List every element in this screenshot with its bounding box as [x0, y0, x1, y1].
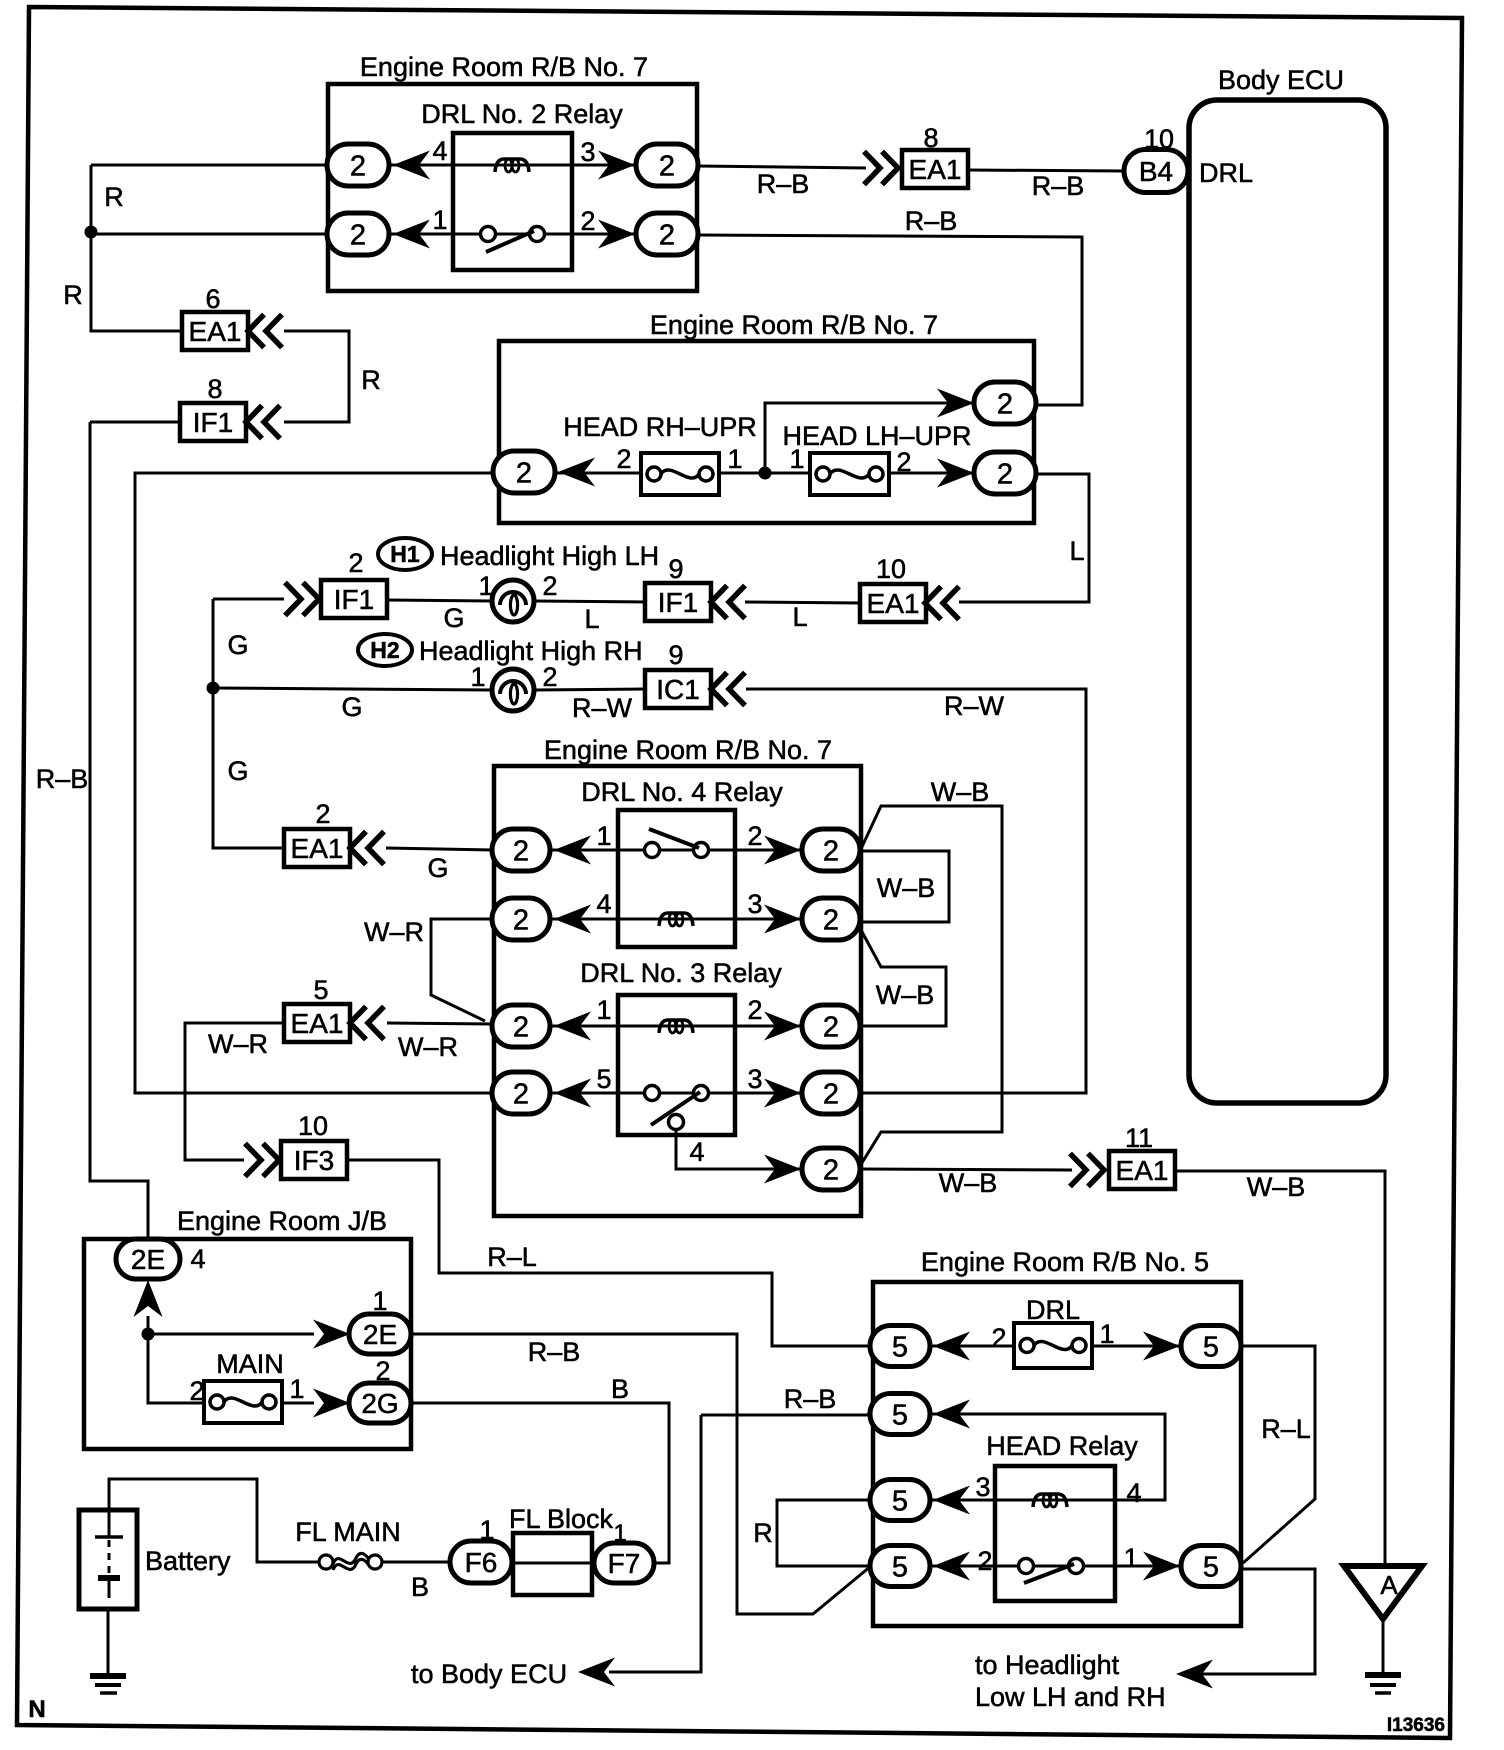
connector oval 5 (DRL in)	[870, 1326, 930, 1367]
wire W-B loop K4 pin3 to K3 pin2	[861, 930, 946, 1026]
svg-text:W–B: W–B	[1247, 1172, 1306, 1202]
svg-text:8: 8	[207, 374, 222, 404]
svg-text:Engine Room J/B: Engine Room J/B	[177, 1206, 387, 1236]
svg-text:to Body ECU: to Body ECU	[411, 1659, 567, 1689]
svg-text:2: 2	[997, 458, 1013, 490]
wire K3 contact row	[550, 1092, 802, 1095]
fuse F MAIN	[204, 1381, 282, 1423]
svg-text:1: 1	[596, 995, 611, 1025]
connector EA1 (10)	[860, 584, 926, 622]
svg-text:R–B: R–B	[784, 1384, 837, 1414]
connector oval 2 (K3 pin1)	[492, 1005, 550, 1047]
wire K4 coil row	[550, 918, 802, 921]
wire H2 pin2 to IC1	[534, 689, 646, 690]
wire W-B loop K4 pin2 to pin3	[862, 851, 949, 922]
battery BAT plates	[95, 1510, 123, 1598]
svg-text:W–R: W–R	[364, 917, 424, 947]
svg-text:R: R	[361, 365, 381, 395]
svg-text:EA1: EA1	[291, 1008, 344, 1039]
wire R to K1 pin1	[91, 233, 327, 236]
wire relay K1 coil row	[389, 164, 636, 167]
svg-text:Body ECU: Body ECU	[1218, 65, 1344, 95]
svg-text:R–L: R–L	[1261, 1414, 1311, 1444]
wire W-B to ground A	[1175, 1171, 1385, 1566]
relay K3 contact	[645, 1086, 709, 1126]
svg-text:Engine Room R/B No. 5: Engine Room R/B No. 5	[921, 1247, 1209, 1277]
svg-text:IF1: IF1	[334, 584, 374, 615]
svg-text:Engine Room R/B No. 7: Engine Room R/B No. 7	[544, 735, 832, 765]
connector oval B4	[1124, 150, 1188, 193]
svg-text:IF3: IF3	[294, 1145, 334, 1176]
svg-text:Engine Room R/B No. 7: Engine Room R/B No. 7	[360, 52, 648, 82]
arrow out K3 pin3	[764, 1079, 801, 1108]
junction node jb	[142, 1328, 155, 1341]
svg-text:EA1: EA1	[291, 833, 344, 864]
wire to headlight low	[1200, 1569, 1315, 1674]
wire H1 pin2 to IF1-9	[534, 601, 646, 602]
arrow out pin2	[598, 220, 635, 249]
svg-text:11: 11	[1125, 1123, 1153, 1153]
relay K4 DRL No.4 relay case	[618, 810, 735, 947]
svg-text:4: 4	[689, 1137, 704, 1167]
arrow into K5 pin3	[933, 1486, 970, 1515]
arrow into pin1	[393, 220, 430, 249]
relay K3 pin4 contact circle	[669, 1115, 684, 1130]
relay K5 contact	[1019, 1559, 1084, 1584]
wire relay K1 contact row	[389, 233, 636, 236]
junction node G	[207, 682, 220, 695]
svg-text:5: 5	[892, 1485, 908, 1517]
connector oval 2 (K4 pin2)	[802, 829, 860, 871]
arrow into K3 pin5	[554, 1079, 591, 1108]
svg-text:DRL No. 4 Relay: DRL No. 4 Relay	[581, 777, 783, 807]
arrow out K4 pin2	[764, 836, 801, 865]
arrow to Body ECU	[578, 1658, 615, 1687]
svg-text:G: G	[227, 756, 248, 786]
wire R-B from K1 pin3	[698, 166, 866, 168]
svg-text:4: 4	[596, 889, 611, 919]
svg-text:2: 2	[659, 150, 675, 182]
wire to H1 pin1	[387, 600, 491, 601]
connector EA1 (8)	[902, 150, 968, 188]
wire K5 coil row	[930, 1499, 1115, 1502]
chevrons IF1-2	[285, 583, 319, 616]
fuse F DRL	[1014, 1323, 1092, 1368]
svg-text:G: G	[227, 630, 248, 660]
wire FL MAIN to F6	[382, 1561, 451, 1564]
svg-text:L: L	[1069, 536, 1084, 566]
chevrons EA1-10	[925, 587, 959, 620]
fusible link FL MAIN	[319, 1553, 382, 1570]
wire R loop pin3 to pin2	[777, 1500, 870, 1566]
wire R-B 2E to R/B5	[411, 1334, 871, 1614]
wire G to H2 pin1	[213, 688, 491, 690]
wire to 2E pin1	[148, 1333, 314, 1336]
wire R-B from K1 pin2	[698, 235, 1082, 405]
svg-text:5: 5	[596, 1064, 611, 1094]
arrow out upper	[937, 389, 974, 418]
wire to upper output oval	[765, 403, 975, 473]
svg-text:2: 2	[350, 150, 366, 182]
svg-text:2: 2	[997, 388, 1013, 420]
chevrons EA1-2	[350, 832, 384, 865]
wire W-B top rail	[860, 806, 1002, 1166]
arrow into row2	[933, 1400, 970, 1429]
arrow to headlight low	[1176, 1660, 1213, 1689]
svg-text:9: 9	[668, 554, 683, 584]
svg-text:4: 4	[1126, 1478, 1141, 1508]
svg-text:Headlight High RH: Headlight High RH	[419, 636, 643, 666]
svg-text:HEAD Relay: HEAD Relay	[986, 1431, 1138, 1461]
svg-text:EA1: EA1	[867, 588, 920, 619]
wire R from EA1-6	[284, 331, 349, 422]
connector oval 2 (K4 pin1)	[492, 829, 550, 871]
box Engine Room R/B No. 7 (DRL No.2 relay)	[328, 84, 697, 291]
chevrons EA1-6	[248, 315, 282, 348]
wire MAIN to 2G	[282, 1402, 314, 1405]
connector oval 2 (HEAD row left)	[493, 451, 555, 493]
arrow into K3 pin1	[554, 1012, 591, 1041]
svg-text:R: R	[63, 280, 83, 310]
chevrons IF1-8	[246, 406, 280, 439]
wire W-R K4 pin4 to EA1-5	[431, 919, 493, 1021]
svg-text:Headlight High LH: Headlight High LH	[440, 541, 659, 571]
svg-text:2E: 2E	[363, 1319, 397, 1350]
svg-text:1: 1	[289, 1374, 304, 1404]
svg-text:W–B: W–B	[931, 777, 990, 807]
box Engine Room R/B No. 7 (HEAD fuses)	[499, 341, 1034, 523]
svg-text:N: N	[28, 1696, 45, 1723]
relay K3 coil	[659, 1020, 693, 1033]
svg-text:2: 2	[747, 821, 762, 851]
svg-text:2: 2	[580, 206, 595, 236]
svg-text:5: 5	[892, 1331, 908, 1363]
connector oval 5 (K5 pin3)	[870, 1480, 930, 1521]
svg-text:F6: F6	[465, 1547, 498, 1578]
connector EA1 (11)	[1109, 1151, 1175, 1189]
connector oval 2 (K3 pin5)	[492, 1072, 550, 1114]
svg-text:G: G	[427, 853, 448, 883]
arrow into HEAD fuses	[558, 458, 595, 487]
chevrons IF1-9	[711, 586, 745, 619]
connector EA1 (2)	[284, 829, 350, 867]
relay K1 contact	[481, 227, 545, 253]
svg-text:G: G	[341, 692, 362, 722]
connector oval 2 (K4 pin3)	[802, 898, 860, 940]
lamp H2 bulb	[492, 669, 534, 711]
arrow into K4 pin1	[554, 836, 591, 865]
svg-text:HEAD RH–UPR: HEAD RH–UPR	[563, 412, 757, 442]
svg-text:1: 1	[1123, 1543, 1138, 1573]
connector oval 5 (K5 pin2)	[870, 1546, 930, 1587]
svg-text:FL Block: FL Block	[509, 1504, 614, 1534]
svg-text:Battery: Battery	[145, 1546, 231, 1576]
svg-text:2: 2	[896, 447, 911, 477]
svg-text:3: 3	[747, 1064, 762, 1094]
arrow out DRL fuse	[1143, 1332, 1180, 1361]
svg-text:1: 1	[432, 205, 447, 235]
svg-text:2: 2	[513, 835, 529, 867]
lamp H1 designator	[378, 538, 432, 570]
svg-text:B: B	[411, 1572, 429, 1602]
svg-text:DRL: DRL	[1026, 1295, 1080, 1325]
arrow out K5 pin1	[1143, 1552, 1180, 1581]
svg-text:2: 2	[348, 548, 363, 578]
svg-text:5: 5	[892, 1551, 908, 1583]
svg-text:2: 2	[659, 219, 675, 251]
ground marker A triangle	[1344, 1566, 1422, 1619]
connector oval 2E (pin1)	[349, 1314, 411, 1354]
wire G to DRL4 pin1	[386, 848, 493, 850]
connector IF1 (9)	[645, 583, 711, 621]
svg-text:EA1: EA1	[909, 154, 962, 185]
wire R-B long left vertical	[90, 422, 148, 1241]
battery BAT case	[79, 1510, 137, 1609]
wire W-R to IF3	[185, 1023, 284, 1160]
svg-text:W–R: W–R	[208, 1029, 268, 1059]
svg-text:3: 3	[975, 1472, 990, 1502]
box Engine Room R/B No. 7 (DRL relays)	[494, 766, 861, 1216]
svg-text:DRL No. 3 Relay: DRL No. 3 Relay	[580, 958, 782, 988]
svg-text:2: 2	[616, 444, 631, 474]
wire R-W from IC1	[746, 689, 1086, 1093]
arrow out K3 pin4	[764, 1155, 801, 1184]
svg-text:5: 5	[892, 1399, 908, 1431]
svg-text:2: 2	[991, 1323, 1006, 1353]
connector oval 2 (lower out)	[974, 452, 1036, 494]
relay K1 coil	[495, 159, 529, 172]
arrow into pin4	[393, 151, 430, 180]
arrow into K5 pin2	[933, 1552, 970, 1581]
svg-text:2: 2	[350, 219, 366, 251]
svg-text:MAIN: MAIN	[216, 1349, 284, 1379]
svg-text:1: 1	[789, 444, 804, 474]
svg-text:10: 10	[876, 554, 906, 584]
arrow out 2G-2	[313, 1389, 350, 1418]
svg-text:R: R	[753, 1518, 773, 1548]
svg-text:IF1: IF1	[658, 587, 698, 618]
chevrons IC1-9	[711, 673, 745, 706]
arrow out pin3	[598, 151, 635, 180]
svg-text:B4: B4	[1139, 156, 1173, 187]
connector oval 2E (pin4)	[116, 1239, 180, 1279]
svg-text:L: L	[792, 602, 807, 632]
svg-text:R: R	[104, 182, 124, 212]
arrow into K4 pin4	[554, 905, 591, 934]
svg-text:F7: F7	[608, 1548, 641, 1579]
svg-text:2: 2	[542, 571, 557, 601]
svg-text:W–B: W–B	[939, 1168, 998, 1198]
wire R-L row2 rail	[867, 1414, 1165, 1500]
svg-text:IF1: IF1	[193, 407, 233, 438]
arrow up into 2E	[134, 1280, 163, 1317]
svg-text:2: 2	[747, 995, 762, 1025]
ECU U1 Body ECU outline	[1189, 100, 1386, 1103]
lamp H2 designator	[358, 634, 412, 666]
wire 2E to junction	[148, 1316, 216, 1403]
svg-text:3: 3	[580, 137, 595, 167]
connector IC1 (9)	[645, 670, 711, 708]
arrow out 2E-1	[313, 1320, 350, 1349]
arrow into DRL fuse	[933, 1332, 970, 1361]
wire DRL fuse row	[930, 1345, 1181, 1348]
svg-text:DRL: DRL	[1199, 158, 1253, 188]
svg-text:2: 2	[513, 1078, 529, 1110]
svg-text:2: 2	[516, 457, 532, 489]
svg-text:R–L: R–L	[487, 1242, 537, 1272]
wire G rail	[213, 599, 285, 848]
relay K3 DRL No.3 relay case	[618, 995, 735, 1135]
svg-text:4: 4	[190, 1244, 205, 1274]
wire R vertical	[91, 165, 182, 331]
chevrons into EA1-11	[1070, 1154, 1104, 1187]
svg-text:B: B	[611, 1374, 629, 1404]
svg-text:A: A	[1380, 1570, 1398, 1600]
svg-text:4: 4	[432, 136, 447, 166]
svg-text:H1: H1	[390, 541, 420, 567]
svg-text:W–R: W–R	[398, 1032, 458, 1062]
wire W-B K3 pin4 to EA1-11	[860, 1169, 1072, 1170]
svg-text:1: 1	[470, 662, 485, 692]
fuse F HEAD RH-UPR	[641, 453, 719, 495]
lamp H1 bulb	[492, 580, 534, 622]
svg-text:2: 2	[542, 662, 557, 692]
connector oval 2 (K3 pin3)	[802, 1072, 860, 1114]
connector oval 2 (K3 pin4)	[802, 1148, 860, 1190]
svg-text:2G: 2G	[361, 1388, 398, 1419]
svg-text:2: 2	[823, 1011, 839, 1043]
svg-text:L: L	[584, 604, 599, 634]
svg-text:H2: H2	[370, 637, 399, 663]
ground A symbol	[1365, 1619, 1401, 1693]
relay K4 contact	[645, 829, 709, 858]
svg-text:2: 2	[823, 1078, 839, 1110]
connector IF3 (10)	[281, 1141, 347, 1179]
connector oval 5 (DRL out)	[1181, 1326, 1241, 1367]
svg-text:R–B: R–B	[528, 1337, 581, 1367]
wire K3 coil row	[550, 1025, 802, 1028]
connector oval 2 (K1 pin1 side)	[327, 213, 389, 255]
svg-text:W–B: W–B	[876, 980, 935, 1010]
relay K1 DRL No.2 relay case	[453, 133, 572, 270]
connector oval F7	[594, 1543, 654, 1583]
connector oval 2 (K1 pin2 side)	[636, 213, 698, 255]
connector oval 5 (K5 pin1)	[1181, 1546, 1241, 1587]
svg-text:3: 3	[747, 889, 762, 919]
connector oval 2G (pin2)	[349, 1383, 411, 1423]
arrow out K3 pin2	[764, 1012, 801, 1041]
battery ground symbol	[90, 1609, 126, 1693]
connector oval 2 (K4 pin4)	[492, 898, 550, 940]
box Engine Room J/B	[84, 1239, 411, 1449]
svg-text:2: 2	[823, 904, 839, 936]
svg-text:2: 2	[823, 835, 839, 867]
svg-text:2: 2	[823, 1154, 839, 1186]
wire B 2G to FL block	[411, 1403, 669, 1563]
wire R-B left rail	[90, 421, 180, 424]
svg-text:EA1: EA1	[1116, 1155, 1169, 1186]
svg-text:R–B: R–B	[1032, 171, 1085, 201]
relay K5 coil	[1033, 1494, 1067, 1507]
connector oval 2 (upper out)	[974, 382, 1036, 424]
connector oval 5 (R-B in)	[870, 1394, 930, 1435]
svg-text:to Headlight: to Headlight	[975, 1650, 1120, 1680]
chevrons IF3-10	[245, 1144, 279, 1177]
wire to Body ECU	[609, 1415, 701, 1672]
relay K4 coil	[659, 913, 693, 926]
svg-text:R–B: R–B	[905, 206, 958, 236]
svg-text:5: 5	[1203, 1551, 1219, 1583]
arrow out lower	[937, 459, 974, 488]
arrow out K4 pin3	[764, 905, 801, 934]
svg-text:2: 2	[513, 1011, 529, 1043]
svg-text:R–W: R–W	[944, 691, 1005, 721]
svg-text:2: 2	[513, 904, 529, 936]
wire L	[959, 474, 1089, 602]
wire battery positive	[109, 1479, 319, 1562]
svg-text:EA1: EA1	[189, 316, 242, 347]
chevrons EA1-5	[350, 1007, 384, 1040]
connector EA1 (6)	[182, 312, 248, 350]
svg-text:IC1: IC1	[656, 674, 700, 705]
wire L to IF1-9	[745, 602, 861, 603]
wire R-L from IF3	[347, 1160, 871, 1346]
wire K5 contact row	[930, 1565, 1181, 1568]
chevrons into EA1-8	[864, 152, 898, 185]
relay K5 HEAD relay case	[995, 1466, 1115, 1601]
svg-text:R–B: R–B	[36, 764, 89, 794]
svg-text:1: 1	[727, 444, 742, 474]
connector IF1 (8)	[180, 403, 246, 441]
connector oval 2 (K1 pin4 side)	[327, 144, 389, 186]
svg-text:2: 2	[977, 1546, 992, 1576]
svg-text:5: 5	[1203, 1331, 1219, 1363]
wire W-R EA1-5 to K3 pin1	[387, 1023, 493, 1024]
svg-text:Low LH and RH: Low LH and RH	[975, 1682, 1166, 1712]
wire HEAD fuse row	[494, 472, 1005, 475]
junction node fuse common	[759, 467, 772, 480]
svg-text:9: 9	[668, 640, 683, 670]
svg-text:2: 2	[315, 799, 330, 829]
connector oval F6	[450, 1541, 512, 1583]
wire R-L to K5 out	[1241, 1346, 1315, 1563]
connector EA1 (5)	[284, 1004, 350, 1042]
junction node R	[85, 226, 98, 239]
svg-text:R–B: R–B	[757, 169, 810, 199]
svg-text:R–W: R–W	[572, 693, 633, 723]
block FL Block	[513, 1533, 592, 1595]
wire G to IF1-2	[213, 598, 284, 601]
svg-text:DRL No. 2 Relay: DRL No. 2 Relay	[421, 99, 623, 129]
wire R-B to B4	[968, 170, 1124, 171]
svg-text:HEAD LH–UPR: HEAD LH–UPR	[782, 421, 971, 451]
connector oval 2 (K1 pin3 side)	[636, 144, 698, 186]
wire K3 pin4 to output	[676, 1129, 802, 1169]
svg-text:1: 1	[1099, 1319, 1114, 1349]
svg-text:6: 6	[205, 284, 220, 314]
svg-text:G: G	[443, 603, 464, 633]
svg-text:I13636: I13636	[1387, 1715, 1445, 1736]
svg-text:10: 10	[298, 1111, 328, 1141]
box Engine Room R/B No. 5	[873, 1282, 1241, 1626]
svg-text:W–B: W–B	[877, 873, 936, 903]
svg-text:FL MAIN: FL MAIN	[295, 1517, 401, 1547]
svg-text:5: 5	[313, 975, 328, 1005]
fuse F HEAD LH-UPR	[810, 453, 889, 495]
svg-text:2E: 2E	[131, 1244, 165, 1275]
wire K4 contact row	[550, 849, 802, 852]
wire R-B row2 to Body ECU tap	[701, 1414, 871, 1417]
